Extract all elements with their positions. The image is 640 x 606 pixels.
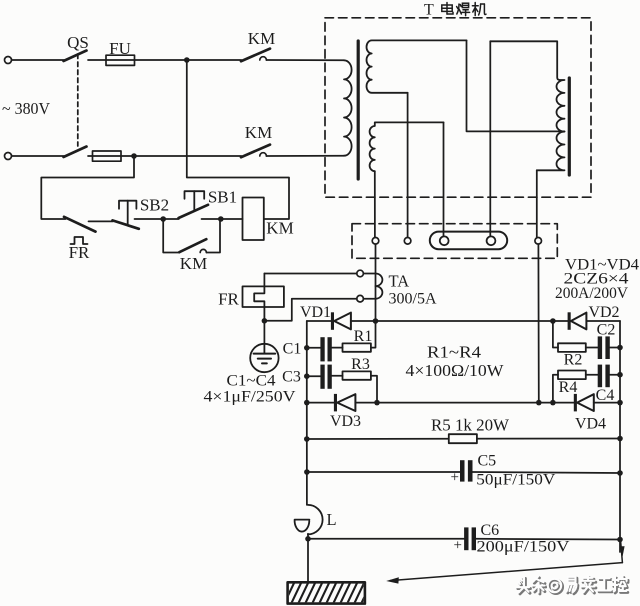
svg-text:200μF/150V: 200μF/150V — [477, 539, 570, 556]
svg-text:VD4: VD4 — [575, 416, 606, 433]
node G (VD2/R2 junction) — [550, 318, 556, 324]
node T2 (C5 row right) — [617, 470, 623, 476]
coil KM (contactor coil) — [243, 198, 264, 241]
svg-text:KM: KM — [245, 123, 272, 142]
node B (junction bottom line) — [131, 153, 137, 159]
wire winding-b bottom lead to terminal 1 — [374, 171, 376, 237]
node P (bottom-right bridge) — [617, 400, 623, 406]
svg-text:QS: QS — [67, 33, 89, 52]
wire node M to R4 — [553, 375, 558, 403]
wire R1 to C1 — [332, 347, 343, 349]
wire bridge bottom rail left — [307, 402, 334, 404]
node U (C6 row left) — [305, 536, 311, 542]
capacitor C2 — [598, 336, 602, 359]
fuse FU1 — [106, 55, 135, 65]
TA secondary lead top — [363, 273, 375, 275]
heater FR (box) — [243, 286, 284, 307]
node J (bottom-left corner) — [304, 400, 310, 406]
node V (C6 row right) — [617, 537, 623, 543]
wire control feed (from node B) — [41, 156, 134, 219]
svg-text:C5: C5 — [478, 453, 497, 470]
pushbutton SB1 (stem) — [193, 191, 195, 211]
diode VD1 (triangle) — [334, 313, 351, 330]
wire left column lower — [306, 403, 308, 505]
svg-text:+: + — [451, 470, 459, 486]
svg-text:R1~R4: R1~R4 — [427, 343, 482, 362]
svg-text:VD3: VD3 — [330, 413, 361, 430]
wire TA top terminal to FR heater — [264, 273, 356, 275]
diode VD3 (cathode bar) — [334, 394, 337, 412]
svg-text:R4: R4 — [559, 379, 578, 396]
node C (junction before SB1) — [160, 216, 166, 222]
wire node F to node G — [376, 320, 553, 322]
node A (junction top line) — [184, 57, 190, 63]
diode VD2 (cathode bar) — [568, 312, 571, 330]
wire QS2 to KM contact 2 — [88, 155, 241, 157]
svg-text:C3: C3 — [282, 369, 301, 386]
svg-text:300/5A: 300/5A — [389, 291, 437, 308]
wire KM aux to node D — [207, 219, 221, 253]
svg-text:KM: KM — [180, 254, 207, 273]
wire R3 right lead — [371, 376, 377, 403]
wire R4 to C4 — [586, 374, 598, 376]
wire node A to KM contact 1 — [187, 59, 242, 61]
node R (R5 row right) — [617, 436, 623, 442]
contactor contact KM2 (fixed contact bump) — [260, 153, 267, 156]
auxiliary contact KM (blade) — [179, 239, 206, 252]
resistor R2 — [558, 343, 586, 352]
wire L1 to QS — [12, 59, 64, 61]
wire R5 row — [307, 438, 620, 441]
node L2 (AC2 junction) — [536, 400, 542, 406]
pushbutton SB1 (button bracket) — [185, 191, 205, 199]
node N (C2 right) — [617, 345, 623, 351]
svg-text:+: + — [454, 538, 462, 554]
capacitor C4 — [598, 365, 602, 388]
resistor R3 — [343, 371, 371, 379]
wire SB2 to node C — [135, 218, 164, 220]
svg-text:R2: R2 — [564, 352, 583, 369]
node I (C3 left) — [304, 373, 310, 379]
svg-text:50μF/150V: 50μF/150V — [476, 472, 555, 489]
heater element FR (jog symbol) — [254, 286, 264, 320]
node S (C5 row left) — [304, 469, 310, 475]
wire terminal 5 down to bridge (AC input 2) — [537, 244, 539, 403]
wire KM aux branch down — [163, 219, 179, 253]
wire C6 row right — [476, 538, 620, 541]
label 电 (title char 1) — [442, 3, 453, 15]
wire C2 to right column — [610, 347, 620, 349]
wire R2 to C2 — [586, 347, 598, 349]
wire L2 to QS pole 2 — [12, 155, 64, 157]
pushbutton SB1 (blade) — [179, 205, 208, 218]
svg-text:T: T — [424, 2, 434, 19]
svg-text:4×100Ω/10W: 4×100Ω/10W — [406, 361, 505, 380]
svg-text:C1~C4: C1~C4 — [227, 373, 276, 390]
pushbutton SB2 (blade) — [113, 220, 139, 228]
wire KM1 to transformer primary top — [266, 59, 344, 61]
wire VD4 to right column — [594, 402, 620, 404]
wire KM2 to transformer primary bottom — [266, 155, 344, 157]
wire C3 to left column — [307, 375, 321, 377]
terminal 2 — [404, 238, 411, 245]
wire node G to R2 — [553, 321, 558, 348]
wire QS1 to fuse FU1 — [88, 59, 187, 61]
arrow shaft to workpiece — [390, 563, 622, 581]
svg-text:KM: KM — [266, 219, 293, 238]
node D (junction after SB1) — [218, 216, 224, 222]
arrow direction head (on vertical) — [620, 546, 624, 556]
wire C5 row left — [307, 471, 460, 473]
capacitor C1 — [320, 337, 324, 361]
electrode holder L (half disc) — [295, 520, 310, 532]
capacitor C5 (electrolytic) — [460, 460, 465, 481]
svg-text:R1: R1 — [354, 328, 373, 345]
wire bridge top rail — [307, 320, 331, 322]
wire winding-b top lead to terminal 3 — [443, 122, 445, 237]
svg-text:KM: KM — [248, 29, 275, 48]
wire into FR heater (down) — [263, 274, 265, 287]
terminal 5 — [535, 238, 542, 245]
resistor R1 — [343, 343, 371, 351]
svg-text:L: L — [327, 510, 337, 529]
pushbutton SB2 (stem) — [127, 201, 129, 226]
wire R3 to C3 — [332, 375, 343, 377]
svg-text:SB1: SB1 — [208, 188, 237, 207]
svg-text:C4: C4 — [596, 387, 615, 404]
svg-text:SB2: SB2 — [140, 196, 169, 215]
node E (FR/ground junction) — [262, 318, 268, 324]
node F (AC1 junction) — [373, 318, 379, 324]
svg-text:C6: C6 — [481, 522, 500, 539]
wire winding-a top lead to right winding tap — [467, 40, 565, 131]
terminal L2 (phase input bottom) — [5, 153, 12, 160]
wire VD1 to node F — [351, 320, 376, 322]
arrowhead at workpiece — [386, 577, 399, 583]
terminal 4 — [487, 236, 496, 245]
wire left column (bridge) — [306, 321, 308, 403]
wire C4 to right column — [610, 374, 620, 376]
svg-text:FR: FR — [218, 290, 239, 309]
svg-text:VD2: VD2 — [588, 304, 619, 321]
label 机 (title char 3) — [472, 3, 486, 16]
contactor contact KM1 (fixed contact bump) — [260, 57, 267, 60]
transformer T secondary winding b — [370, 122, 444, 171]
svg-text:R5 1k 20W: R5 1k 20W — [431, 416, 509, 435]
thermal relay contact FR (actuator symbol) — [71, 237, 88, 244]
electrode holder L (big arc) — [308, 505, 323, 535]
contactor contact KM2 (blade) — [241, 145, 270, 158]
wire VD2 to right column — [586, 320, 620, 322]
svg-text:4×1μF/250V: 4×1μF/250V — [204, 389, 296, 406]
wire C5 row right — [473, 472, 621, 473]
auxiliary contact KM (fixed contact bump) — [200, 249, 206, 252]
wire SB1 to node D — [202, 218, 221, 220]
wire terminal 1 down to bridge (AC input 1) — [375, 244, 377, 321]
TA terminal bottom — [357, 295, 364, 302]
transformer T core (right) — [568, 78, 571, 175]
transformer T right winding (reactor) — [490, 41, 564, 170]
svg-text:200A/200V: 200A/200V — [555, 285, 628, 302]
node H (C1 left) — [304, 345, 310, 351]
label 焊 (title char 2) — [457, 3, 470, 15]
arrow to workpiece (down segment) — [621, 540, 623, 563]
terminal L1 (phase input top) — [5, 57, 12, 64]
TA terminal top — [357, 270, 364, 277]
TA secondary lead bottom — [363, 298, 375, 300]
resistor R5 — [449, 434, 477, 443]
svg-text:C1: C1 — [283, 341, 302, 358]
fuse FU2 — [93, 151, 122, 161]
diode VD4 (cathode bar) — [574, 394, 577, 412]
resistor R4 — [558, 371, 586, 380]
transformer T core (left) — [357, 41, 360, 179]
wire node F to R1 — [371, 321, 376, 348]
link bar (jumper between terminals 3 and 4) — [430, 232, 507, 250]
switch QS pole 2 (blade) — [64, 147, 87, 158]
capacitor C3 — [320, 365, 324, 389]
ground (protective earth in circle) — [250, 344, 278, 372]
transformer T primary winding — [344, 60, 352, 155]
wire FR to SB2 — [89, 220, 114, 222]
contactor contact KM1 (blade) — [241, 49, 270, 62]
transformer T secondary winding a — [367, 40, 467, 92]
svg-text:~ 380V: ~ 380V — [2, 99, 50, 118]
diode VD2 (triangle) — [571, 313, 587, 330]
terminal 3 — [440, 236, 449, 245]
svg-text:R3: R3 — [351, 356, 370, 373]
terminal board (dashed strip) — [352, 224, 557, 259]
svg-text:VD1: VD1 — [300, 304, 331, 321]
wire L to C6 row — [307, 534, 309, 583]
workpiece (hatched block) — [284, 581, 372, 604]
diode VD1 (cathode bar) — [331, 312, 334, 330]
terminal 1 — [372, 238, 379, 245]
wire phase feed to coil circuit (from node A) — [187, 60, 289, 219]
welding machine enclosure (dashed box) — [325, 18, 591, 197]
diode VD4 (triangle) — [577, 394, 594, 411]
QS mechanical link (dashed) — [77, 54, 79, 146]
wire node C to SB1 — [163, 218, 179, 220]
node O (C4 right) — [617, 372, 623, 378]
diode VD3 (triangle) — [337, 394, 355, 411]
node M (R4 junction) — [550, 400, 556, 406]
wire right column — [619, 321, 621, 552]
wire TA bottom terminal to node E — [264, 299, 356, 321]
wire C6 row left — [308, 538, 464, 540]
wire node G to VD2 — [553, 320, 568, 322]
pushbutton SB2 (button bracket) — [119, 201, 136, 209]
node Q (R5 row left) — [304, 436, 310, 442]
svg-text:TA: TA — [389, 272, 410, 291]
wire C1 to left column — [307, 347, 321, 349]
capacitor C6 (electrolytic) — [464, 527, 468, 550]
wire node D to coil KM — [221, 218, 243, 220]
wire VD3 to VD4 (bottom rail) — [355, 402, 574, 404]
wire right winding bottom lead to terminal 5 — [536, 170, 538, 237]
wire node E to ground — [263, 321, 265, 344]
node K (R3 bottom junction) — [374, 400, 380, 406]
svg-text:C2: C2 — [597, 322, 616, 339]
thermal relay contact FR (blade) — [64, 217, 96, 232]
svg-text:FR: FR — [69, 243, 90, 262]
wire winding-a bottom lead to terminal 2 — [407, 93, 409, 238]
switch QS pole 1 (blade) — [64, 51, 87, 62]
current transformer TA (secondary bumps) — [376, 274, 383, 299]
svg-text:FU: FU — [109, 39, 131, 58]
wire right winding top lead to terminal 4 — [489, 41, 491, 237]
